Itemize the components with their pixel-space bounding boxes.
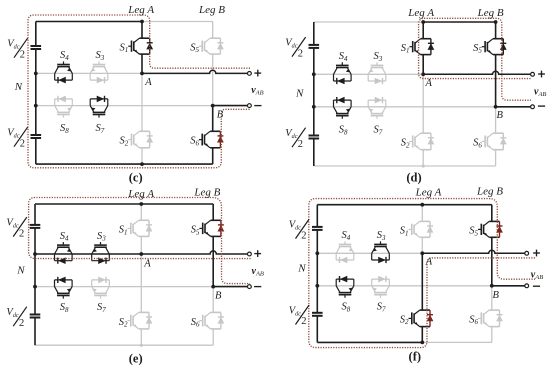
svg-text:S2: S2 xyxy=(400,314,409,326)
svg-text:vAB: vAB xyxy=(531,270,543,282)
svg-text:S8: S8 xyxy=(342,302,351,314)
svg-text:Vdc: Vdc xyxy=(289,306,302,318)
svg-text:S5: S5 xyxy=(190,42,199,54)
svg-text:B: B xyxy=(215,291,222,302)
svg-text:S6: S6 xyxy=(469,314,478,326)
svg-text:2: 2 xyxy=(301,316,306,327)
svg-text:S6: S6 xyxy=(473,138,482,150)
svg-text:2: 2 xyxy=(19,228,24,239)
svg-text:S5: S5 xyxy=(469,226,478,238)
svg-text:Leg A: Leg A xyxy=(127,188,154,200)
svg-text:S4: S4 xyxy=(60,231,69,243)
svg-text:2: 2 xyxy=(20,49,25,60)
svg-text:A: A xyxy=(425,78,433,89)
svg-text:S4: S4 xyxy=(60,50,69,62)
svg-text:S2: S2 xyxy=(120,136,129,148)
svg-text:S2: S2 xyxy=(119,317,128,329)
svg-text:(d): (d) xyxy=(406,170,421,184)
svg-text:Vdc: Vdc xyxy=(6,307,19,319)
svg-text:S8: S8 xyxy=(60,302,69,314)
svg-text:vAB: vAB xyxy=(534,87,546,99)
svg-text:S8: S8 xyxy=(339,125,348,137)
svg-text:(c): (c) xyxy=(129,170,143,184)
svg-text:N: N xyxy=(297,263,306,275)
svg-text:S1: S1 xyxy=(120,42,129,54)
svg-text:S5: S5 xyxy=(473,43,482,55)
svg-text:S4: S4 xyxy=(342,230,351,242)
svg-text:S3: S3 xyxy=(377,230,386,242)
svg-text:B: B xyxy=(497,110,504,121)
svg-text:2: 2 xyxy=(301,230,306,241)
svg-text:2: 2 xyxy=(20,138,25,149)
svg-text:B: B xyxy=(493,290,500,301)
svg-text:Vdc: Vdc xyxy=(6,218,19,230)
svg-text:S1: S1 xyxy=(400,226,409,238)
svg-text:Leg B: Leg B xyxy=(476,186,503,198)
svg-text:S7: S7 xyxy=(96,123,105,135)
svg-text:S7: S7 xyxy=(374,125,383,137)
svg-text:A: A xyxy=(144,77,152,88)
svg-text:S7: S7 xyxy=(377,302,386,314)
svg-text:S8: S8 xyxy=(60,123,69,135)
svg-text:N: N xyxy=(16,265,25,277)
svg-text:S7: S7 xyxy=(97,302,106,314)
svg-text:S2: S2 xyxy=(401,138,410,150)
svg-text:Vdc: Vdc xyxy=(7,39,20,51)
svg-text:Leg A: Leg A xyxy=(127,4,154,16)
svg-text:2: 2 xyxy=(298,48,303,59)
svg-text:Leg B: Leg B xyxy=(477,7,504,19)
svg-text:S1: S1 xyxy=(401,43,410,55)
svg-text:Vdc: Vdc xyxy=(285,128,298,140)
svg-text:A: A xyxy=(425,256,433,267)
svg-text:Vdc: Vdc xyxy=(289,220,302,232)
svg-text:S3: S3 xyxy=(97,231,106,243)
svg-text:S5: S5 xyxy=(191,225,200,237)
svg-text:B: B xyxy=(217,110,224,121)
svg-text:2: 2 xyxy=(298,139,303,150)
svg-text:(f): (f) xyxy=(409,350,422,364)
svg-text:2: 2 xyxy=(19,318,24,329)
svg-text:S6: S6 xyxy=(191,317,200,329)
svg-text:S3: S3 xyxy=(374,51,383,63)
svg-text:Leg A: Leg A xyxy=(415,187,442,199)
svg-text:N: N xyxy=(295,88,304,100)
svg-text:S6: S6 xyxy=(190,136,199,148)
svg-text:Vdc: Vdc xyxy=(7,128,20,140)
svg-text:Vdc: Vdc xyxy=(285,38,298,50)
svg-text:Leg A: Leg A xyxy=(407,7,434,19)
svg-text:Leg B: Leg B xyxy=(193,186,220,198)
svg-text:vAB: vAB xyxy=(252,266,264,278)
svg-text:Leg B: Leg B xyxy=(198,4,225,16)
svg-text:vAB: vAB xyxy=(251,85,263,97)
svg-text:(e): (e) xyxy=(129,351,143,365)
svg-text:S1: S1 xyxy=(119,225,128,237)
svg-text:N: N xyxy=(14,81,23,93)
svg-text:S4: S4 xyxy=(339,51,348,63)
svg-text:S3: S3 xyxy=(96,50,105,62)
svg-text:A: A xyxy=(143,259,151,270)
